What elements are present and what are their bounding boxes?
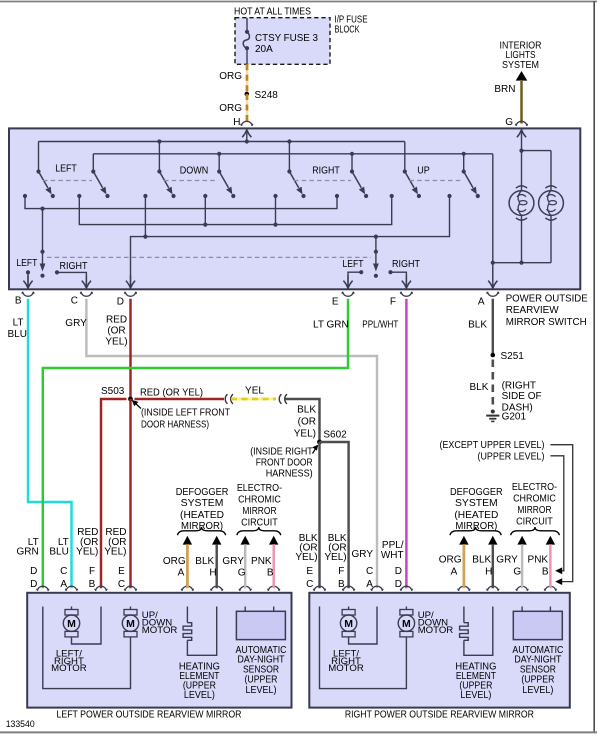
switch RIGHT 2 (350, 169, 365, 194)
lamp return bus (493, 261, 551, 265)
pin C exit arrow (82, 275, 91, 288)
right stub labels (439, 555, 549, 566)
label (INSIDE LEFT FRONT DOOR HARNESS) (141, 408, 230, 431)
label ORG (lower) (219, 103, 242, 114)
right wire PNK stub (546, 536, 555, 589)
svg-text:CIRCUIT: CIRCUIT (516, 516, 553, 527)
svg-text:ELECTRO-: ELECTRO- (237, 483, 282, 494)
svg-text:D: D (30, 579, 37, 590)
svg-text:S248: S248 (255, 90, 279, 101)
splice S251 (491, 353, 496, 358)
svg-text:133540: 133540 (6, 719, 35, 729)
right label PPL/WHT (381, 540, 404, 561)
svg-text:DEFOGGER: DEFOGGER (176, 487, 229, 498)
svg-text:YEL): YEL) (295, 552, 317, 563)
svg-text:G: G (513, 566, 521, 577)
label I/P FUSE BLOCK (335, 14, 368, 35)
label PPL/WHT (362, 320, 398, 331)
switch UP 2 (462, 169, 477, 194)
connector pin F (cup) (400, 292, 413, 297)
label UP (417, 166, 430, 177)
left connector pin (cup) 6 (210, 586, 223, 591)
label DOWN (180, 166, 209, 177)
left label LT BLU (49, 537, 68, 558)
left pin entry arrow 1 (38, 594, 47, 607)
svg-text:GRY: GRY (352, 549, 374, 560)
svg-text:MOTOR: MOTOR (418, 625, 454, 636)
wire BLK (OR YEL) S602 down (318, 442, 320, 588)
bus1 (from H) (39, 139, 405, 171)
wire RED (OR YEL) from D to S503 (129, 299, 131, 399)
svg-text:RIGHT: RIGHT (312, 166, 340, 177)
busB link (79, 196, 391, 227)
right pin entry arrow 6 (488, 594, 497, 607)
splice S503 (128, 397, 133, 402)
left wire ORG stub (183, 536, 192, 589)
label LEFT (bottom left) (16, 258, 37, 269)
bus2 (to A) (93, 152, 493, 172)
selector left contacts (26, 270, 87, 289)
right defogger brace (450, 527, 501, 535)
right pin letters D/D (395, 566, 402, 590)
lamp 1 (switch illumination) (509, 186, 534, 263)
wire RED (OR YEL) S503 right branch (135, 398, 225, 400)
label pin G (505, 117, 513, 128)
right connector pin (cup) 4 (400, 586, 413, 591)
ground G201 (486, 410, 499, 422)
svg-text:(EXCEPT UPPER LEVEL): (EXCEPT UPPER LEVEL) (440, 440, 545, 451)
svg-text:(INSIDE RIGHT: (INSIDE RIGHT (250, 446, 313, 457)
svg-text:BLK: BLK (468, 320, 487, 331)
svg-text:PNK: PNK (251, 556, 272, 567)
svg-text:MIRROR): MIRROR) (181, 521, 223, 532)
svg-text:A: A (366, 579, 373, 590)
wire BLK (OR YEL) S602 branch (320, 442, 349, 588)
left up/down motor M2 (43, 607, 139, 689)
left pin entry arrow 8 (269, 594, 278, 607)
svg-text:(HEATED: (HEATED (180, 510, 224, 521)
busC link (131, 196, 450, 289)
right pin entry arrow 3 (372, 594, 381, 607)
svg-text:YEL): YEL) (105, 336, 127, 347)
label LEFT (top) (55, 164, 77, 175)
switch RIGHT 1 (287, 169, 302, 194)
pin F exit arrow (402, 275, 411, 288)
svg-text:G: G (505, 117, 513, 128)
label ORG (upper) (219, 71, 242, 82)
label (RIGHT SIDE OF DASH) (502, 380, 542, 413)
svg-text:D: D (30, 566, 37, 577)
svg-text:BLU: BLU (8, 329, 27, 340)
label INTERIOR LIGHTS SYSTEM (500, 41, 542, 71)
busA link (25, 196, 337, 211)
right pin entry arrow 7 (518, 594, 527, 607)
inline connector (left, double arc) (225, 394, 233, 404)
svg-text:B: B (542, 566, 549, 577)
switch UP 1 (403, 169, 418, 194)
left power outside rearview mirror box (27, 593, 291, 708)
svg-text:(HEATED: (HEATED (454, 510, 498, 521)
svg-text:S503: S503 (101, 386, 125, 397)
label S503 (101, 386, 125, 397)
left wire BLK stub (212, 536, 221, 589)
svg-text:D: D (395, 579, 402, 590)
splice S248 (245, 92, 250, 97)
right wire ORG stub (459, 536, 468, 589)
right label BLK (OR YEL) 1 (295, 533, 318, 563)
svg-text:SIDE OF: SIDE OF (502, 391, 542, 402)
svg-text:YEL): YEL) (104, 546, 126, 557)
wire RED (OR YEL) S503 left branch (101, 399, 127, 588)
svg-text:M: M (344, 618, 353, 630)
lamp 2 (switch illumination) (539, 186, 564, 263)
svg-text:SYSTEM: SYSTEM (455, 498, 498, 509)
label HOT AT ALL TIMES (234, 7, 311, 18)
right electrochromic brace (511, 527, 560, 535)
svg-text:(OR: (OR (107, 326, 125, 337)
left connector pin (cup) 5 (181, 586, 194, 591)
svg-text:LEFT: LEFT (55, 164, 77, 175)
left left/right motor M1 (63, 607, 101, 645)
right label HEATING ELEMENT (UPPER LEVEL) (455, 661, 496, 701)
svg-text:LEVEL): LEVEL) (246, 685, 277, 696)
svg-text:DOWN: DOWN (180, 166, 209, 177)
pin H entry arrow (242, 130, 251, 142)
label BLK (ground) (469, 382, 488, 393)
left automatic day-night sensor (236, 607, 285, 640)
svg-text:E: E (332, 297, 339, 308)
svg-text:CTSY FUSE 3: CTSY FUSE 3 (255, 33, 318, 44)
right label LEFT/RIGHT MOTOR (328, 648, 364, 674)
left label UP/DOWN MOTOR (142, 610, 178, 636)
switch LEFT 2 (91, 169, 106, 194)
left connector pin (cup) 4 (124, 586, 137, 591)
svg-text:RED (OR YEL): RED (OR YEL) (140, 387, 203, 398)
svg-text:(INSIDE LEFT FRONT: (INSIDE LEFT FRONT (141, 408, 230, 419)
svg-text:SYSTEM: SYSTEM (502, 60, 539, 71)
svg-text:A: A (451, 566, 458, 577)
switch DOWN 2 (217, 169, 232, 194)
svg-text:CHROMIC: CHROMIC (238, 495, 281, 506)
svg-text:MOTOR: MOTOR (328, 663, 364, 674)
svg-text:(UPPER LEVEL): (UPPER LEVEL) (478, 451, 545, 462)
right wire GRY stub (517, 536, 526, 589)
diagram number 133540 (6, 719, 35, 729)
connector pin B (cup) (22, 292, 35, 297)
switch DOWN 1 (157, 169, 172, 194)
svg-text:FRONT DOOR: FRONT DOOR (256, 458, 313, 469)
inline connector (right, double arc) (279, 394, 287, 404)
svg-text:LEFT: LEFT (343, 259, 364, 270)
svg-text:LEVEL): LEVEL) (522, 685, 553, 696)
left connector pin (cup) 7 (239, 586, 252, 591)
pin D exit arrow (126, 275, 135, 288)
label (UPPER LEVEL) (478, 451, 545, 462)
left pin entry arrow 3 (96, 594, 105, 607)
switch contacts (23, 194, 480, 198)
svg-text:GRY: GRY (496, 555, 518, 566)
svg-text:A: A (60, 579, 67, 590)
right label AUTOMATIC DAY-NIGHT SENSOR (UPPER LEVEL) (512, 645, 563, 696)
svg-text:REARVIEW: REARVIEW (506, 305, 560, 316)
svg-text:C: C (71, 295, 78, 306)
svg-text:LEFT: LEFT (16, 258, 37, 269)
connector pin G (cup) (515, 121, 528, 126)
svg-text:G201: G201 (502, 411, 527, 422)
svg-text:BLK: BLK (469, 382, 488, 393)
right connector pin (cup) 2 (342, 586, 355, 591)
label S602 (323, 430, 347, 441)
right power outside rearview mirror box (309, 593, 570, 708)
right pin letters F/B (338, 566, 345, 590)
svg-text:BLOCK: BLOCK (335, 24, 360, 35)
svg-text:ORG: ORG (163, 556, 186, 567)
svg-text:M: M (126, 618, 135, 630)
right label ELECTRO-CHROMIC MIRROR CIRCUIT (512, 482, 557, 527)
svg-text:H: H (233, 117, 240, 128)
wire BLK (OR YEL) to S602 (285, 399, 320, 442)
left label AUTOMATIC DAY-NIGHT SENSOR (UPPER LEVEL) (236, 645, 287, 696)
svg-text:G: G (238, 568, 246, 579)
svg-text:M: M (67, 618, 76, 630)
right pin entry arrow 1 (315, 594, 324, 607)
left pin entry arrow 6 (212, 594, 221, 607)
svg-text:CHROMIC: CHROMIC (513, 494, 556, 505)
svg-text:ORG: ORG (219, 103, 242, 114)
wire LT GRN from E (43, 299, 348, 589)
left connector pin (cup) 3 (95, 586, 108, 591)
wire YEL (231, 398, 276, 401)
svg-text:YEL: YEL (245, 385, 264, 396)
S503 callout arrow (132, 400, 141, 409)
svg-text:ORG: ORG (439, 555, 462, 566)
left stub labels (163, 556, 272, 567)
fuse CTSY FUSE 3 20A (243, 18, 249, 64)
gang dash UP (410, 180, 464, 182)
svg-text:(UPPER: (UPPER (521, 674, 554, 685)
left label LT GRN (16, 537, 38, 558)
svg-text:HARNESS): HARNESS) (266, 469, 313, 480)
pin letters at switch (15, 295, 485, 307)
off-page arrow to interior lights (516, 71, 528, 81)
connector pin H (cup) (240, 121, 253, 126)
svg-text:BLU: BLU (49, 546, 68, 557)
svg-text:F: F (338, 566, 344, 577)
label POWER OUTSIDE REARVIEW MIRROR SWITCH (506, 293, 588, 328)
svg-text:A: A (178, 568, 185, 579)
svg-text:MOTOR: MOTOR (51, 663, 87, 674)
label RED (OR YEL) at D (105, 314, 127, 347)
svg-text:B: B (89, 579, 96, 590)
svg-text:D: D (395, 566, 402, 577)
selector right contacts (348, 270, 406, 289)
label G201 (502, 411, 527, 422)
splice S602 (317, 440, 322, 445)
svg-text:LT GRN: LT GRN (313, 320, 349, 331)
right automatic day-night sensor (513, 607, 562, 640)
label LEFT (bottom mid) (343, 259, 364, 270)
svg-text:DEFOGGER: DEFOGGER (450, 487, 503, 498)
selector LEFT/RIGHT (left) (40, 209, 46, 278)
svg-text:YEL): YEL) (294, 428, 316, 439)
svg-text:C: C (366, 566, 373, 577)
right label RIGHT POWER OUTSIDE REARVIEW MIRROR (345, 709, 534, 720)
label CTSY FUSE 3 20A (255, 33, 318, 55)
svg-text:PPL/WHT: PPL/WHT (362, 320, 398, 331)
svg-text:B: B (267, 568, 274, 579)
lamp feed tee (519, 149, 551, 191)
right pin letters E/C (306, 566, 313, 590)
svg-text:B: B (15, 295, 22, 306)
right connector pin (cup) 7 (516, 586, 529, 591)
label pin H (233, 117, 240, 128)
left connector pin (cup) 8 (267, 586, 280, 591)
svg-text:M: M (402, 618, 411, 630)
connector pin C (cup) (80, 292, 93, 297)
right label GRY (352, 549, 374, 560)
wire LT BLU from B (28, 299, 72, 589)
wire GRY from C (86, 299, 377, 589)
svg-text:(RIGHT: (RIGHT (502, 380, 536, 391)
left connector pin (cup) 2 (65, 586, 78, 591)
wire BLK from A to S251 (492, 299, 494, 355)
label RIGHT (top) (312, 166, 340, 177)
svg-text:SYSTEM: SYSTEM (181, 498, 224, 509)
svg-text:H: H (209, 568, 216, 579)
left pin entry arrow 7 (241, 594, 250, 607)
svg-text:MOTOR: MOTOR (142, 625, 178, 636)
left stub pin letters (178, 568, 274, 579)
left pin entry arrow 5 (183, 594, 192, 607)
label (INSIDE RIGHT FRONT DOOR HARNESS) (250, 446, 313, 479)
right connector pin (cup) 5 (458, 586, 471, 591)
wire bus2 to A exit (491, 154, 495, 281)
left pin letters D/D (30, 566, 37, 590)
left label RED (OR YEL) 2 (104, 527, 126, 558)
pin E exit arrow (343, 275, 352, 288)
right pin entry arrow 4 (402, 594, 411, 607)
svg-text:20A: 20A (255, 44, 273, 55)
label RIGHT (bottom left) (60, 261, 88, 272)
svg-text:YEL): YEL) (76, 546, 98, 557)
wire BLK S251 to G201 (dashed) (491, 360, 494, 410)
svg-text:BLK: BLK (195, 556, 214, 567)
svg-text:D: D (117, 297, 124, 308)
wire RED (OR YEL) S503 down branch (129, 399, 131, 588)
svg-text:BRN: BRN (494, 84, 515, 95)
svg-text:ORG: ORG (219, 71, 242, 82)
svg-text:PNK: PNK (528, 555, 549, 566)
label S251 (501, 351, 525, 362)
label BRN (494, 84, 515, 95)
right pin entry arrow 2 (344, 594, 353, 607)
left pin entry arrow 4 (126, 594, 135, 607)
left label RED (OR YEL) 1 (76, 527, 98, 558)
svg-text:MIRROR: MIRROR (242, 506, 276, 517)
svg-text:ELECTRO-: ELECTRO- (512, 482, 557, 493)
svg-text:POWER OUTSIDE: POWER OUTSIDE (506, 293, 588, 304)
connector pin A (cup) (486, 292, 499, 297)
svg-text:F: F (390, 297, 396, 308)
gang dash LEFT (43, 180, 92, 182)
svg-text:YEL): YEL) (324, 552, 346, 563)
svg-text:LEFT POWER OUTSIDE REARVIEW MI: LEFT POWER OUTSIDE REARVIEW MIRROR (57, 709, 242, 720)
left wire PNK stub (269, 536, 278, 589)
label (EXCEPT UPPER LEVEL) (440, 440, 545, 451)
svg-text:LEVEL): LEVEL) (460, 690, 491, 701)
left pin letters C/A (60, 566, 67, 590)
label BLK (A) (468, 320, 487, 331)
pin G entry arrow (517, 130, 526, 151)
left label LEFT/RIGHT MOTOR (51, 648, 87, 674)
svg-text:C: C (306, 579, 313, 590)
svg-text:C: C (118, 579, 125, 590)
svg-text:MIRROR): MIRROR) (455, 521, 497, 532)
svg-text:DOOR HARNESS): DOOR HARNESS) (141, 419, 209, 430)
label GRY (switch C) (65, 318, 87, 329)
I/P fuse block (dashed box) (235, 18, 330, 65)
pin B exit arrow (23, 275, 32, 288)
svg-text:UP: UP (417, 166, 430, 177)
gang dash DOWN (164, 180, 218, 182)
right connector pin (cup) 6 (486, 586, 499, 591)
svg-text:HOT AT ALL TIMES: HOT AT ALL TIMES (234, 7, 311, 18)
wire PPL/WHT from F (405, 299, 407, 589)
right label UP/DOWN MOTOR (418, 610, 454, 636)
svg-text:S251: S251 (501, 351, 525, 362)
svg-text:BLK: BLK (297, 404, 316, 415)
svg-text:B: B (338, 579, 345, 590)
pivot feeds (159, 142, 463, 172)
right connector pin (cup) 8 (544, 586, 557, 591)
wire ORG S248 to switch H (246, 94, 248, 122)
left pin letters E/C (118, 566, 125, 590)
gang dash bottom (47, 256, 371, 258)
callout line except upper level (550, 445, 572, 585)
callout line upper level (550, 456, 563, 574)
svg-text:(OR: (OR (298, 416, 316, 427)
svg-text:S602: S602 (323, 430, 347, 441)
svg-text:MIRROR: MIRROR (517, 505, 551, 516)
svg-text:RIGHT POWER OUTSIDE REARVIEW M: RIGHT POWER OUTSIDE REARVIEW MIRROR (345, 709, 534, 720)
left label ELECTRO-CHROMIC MIRROR CIRCUIT (237, 483, 282, 528)
S602 callout arrow (312, 445, 318, 454)
selector LEFT/RIGHT (right) (373, 237, 379, 278)
label LT BLU (8, 317, 27, 340)
label RED (OR YEL) horizontal (140, 387, 203, 398)
right connector pin (cup) 3 (371, 586, 384, 591)
left heating element (183, 607, 217, 656)
left defogger brace (177, 527, 225, 535)
svg-text:E: E (118, 566, 125, 577)
pin A exit arrow (488, 267, 497, 288)
svg-text:C: C (60, 566, 67, 577)
left label HEATING ELEMENT (UPPER LEVEL) (179, 661, 220, 701)
wire ORG fuse to S248 (246, 64, 248, 94)
left pin entry arrow 2 (67, 594, 76, 607)
gang dash RIGHT (294, 180, 351, 182)
svg-text:RED: RED (106, 314, 127, 325)
svg-text:A: A (478, 297, 485, 308)
svg-text:BLK: BLK (472, 555, 491, 566)
svg-text:E: E (306, 566, 313, 577)
svg-text:(UPPER: (UPPER (245, 674, 278, 685)
left label DEFOGGER SYSTEM (HEATED MIRROR) (176, 487, 229, 532)
svg-text:MIRROR SWITCH: MIRROR SWITCH (506, 317, 587, 328)
label YEL (245, 385, 264, 396)
right pin letters C/A (366, 566, 373, 590)
svg-text:F: F (89, 566, 95, 577)
